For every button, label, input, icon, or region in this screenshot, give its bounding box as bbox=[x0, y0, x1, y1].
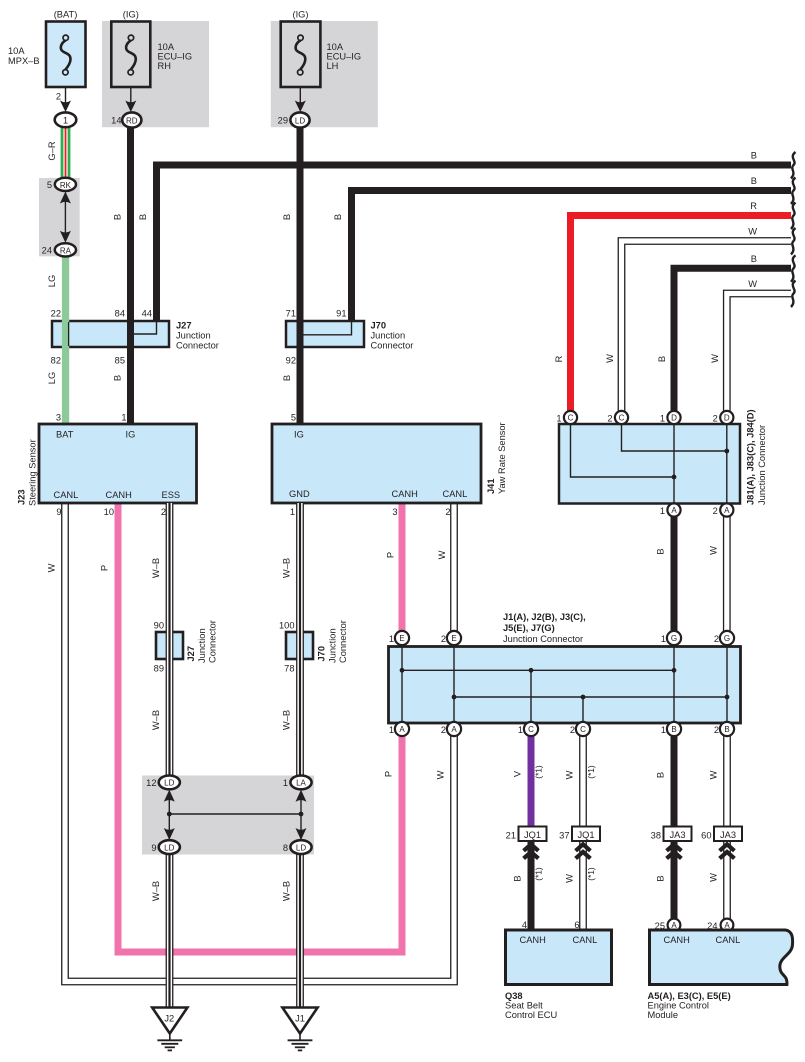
svg-text:W–B: W–B bbox=[151, 710, 161, 730]
J81 pin circle 2D bbox=[720, 411, 733, 424]
continuation squiggle B3 bbox=[791, 255, 796, 281]
svg-text:B: B bbox=[656, 772, 666, 778]
svg-text:A: A bbox=[671, 921, 677, 930]
svg-text:JQ1: JQ1 bbox=[524, 830, 541, 840]
junction pin circle 1C bottom bbox=[524, 722, 538, 736]
wire B fuse LD to yaw IG bbox=[297, 120, 304, 424]
connector oval RA bbox=[55, 243, 76, 256]
svg-text:(IG): (IG) bbox=[123, 10, 139, 20]
svg-text:P: P bbox=[386, 552, 396, 558]
J81 pin labels bbox=[556, 414, 717, 517]
svg-text:37: 37 bbox=[559, 831, 569, 841]
svg-text:W: W bbox=[748, 279, 757, 289]
svg-text:2: 2 bbox=[713, 414, 718, 424]
seat belt control ECU Q38 box bbox=[506, 930, 612, 985]
svg-text:2: 2 bbox=[714, 634, 719, 644]
wire V junction 1C to JQ1 bbox=[528, 736, 535, 827]
svg-text:(*1): (*1) bbox=[534, 867, 544, 881]
svg-text:C: C bbox=[528, 725, 534, 734]
svg-text:J1(A), J2(B), J3(C),: J1(A), J2(B), J3(C), bbox=[503, 612, 586, 622]
svg-text:A5(A), E3(C), E5(E): A5(A), E3(C), E5(E) bbox=[648, 991, 731, 1001]
svg-text:Junction: Junction bbox=[197, 628, 207, 663]
svg-text:Connector: Connector bbox=[208, 620, 218, 663]
svg-text:90: 90 bbox=[154, 621, 164, 631]
wire W junction 2B to JA3 bbox=[723, 736, 731, 827]
svg-text:ECU–IG: ECU–IG bbox=[158, 52, 193, 62]
svg-text:RK: RK bbox=[60, 181, 72, 190]
fuse 2 labels bbox=[111, 10, 192, 126]
svg-text:10: 10 bbox=[104, 507, 114, 517]
J81 pin circle 1C bbox=[564, 411, 577, 424]
connector box JA3 (38) bbox=[664, 827, 692, 842]
svg-text:Junction: Junction bbox=[371, 331, 406, 341]
svg-text:1: 1 bbox=[661, 725, 666, 735]
svg-text:4: 4 bbox=[522, 920, 527, 930]
svg-text:2: 2 bbox=[56, 92, 61, 102]
wire B JA3 to ECM CANH bbox=[671, 841, 678, 925]
svg-text:1: 1 bbox=[556, 414, 561, 424]
svg-text:89: 89 bbox=[154, 664, 164, 674]
wire W CAN-L loop (steering CANL to junction 2A) bbox=[65, 503, 454, 982]
junction pin circle 1B bottom bbox=[667, 722, 681, 736]
svg-text:W: W bbox=[565, 874, 575, 883]
svg-text:MPX–B: MPX–B bbox=[8, 56, 40, 66]
connector oval 1 LA bbox=[290, 776, 311, 790]
svg-text:W: W bbox=[709, 770, 719, 779]
arrow up into RK bbox=[60, 192, 71, 204]
svg-text:B: B bbox=[113, 214, 123, 220]
svg-text:1: 1 bbox=[389, 725, 394, 735]
fuse 10A ECU-IG LH box bbox=[281, 22, 321, 88]
svg-text:100: 100 bbox=[279, 621, 295, 631]
svg-text:71: 71 bbox=[286, 309, 296, 319]
svg-text:1: 1 bbox=[63, 116, 68, 126]
wire B horizontal to J81 1D bbox=[674, 268, 791, 417]
svg-text:8: 8 bbox=[283, 843, 288, 853]
svg-text:B: B bbox=[671, 725, 676, 734]
wire B horizontal 2 to J70 pin 91 bbox=[352, 191, 792, 322]
svg-text:24: 24 bbox=[42, 246, 52, 256]
svg-text:2: 2 bbox=[607, 414, 612, 424]
junction pin circle 1G bbox=[667, 631, 681, 645]
svg-text:W–B: W–B bbox=[282, 881, 292, 901]
svg-text:IG: IG bbox=[126, 430, 136, 440]
connector oval RK bbox=[55, 178, 76, 191]
junction pin circle 2A bottom bbox=[447, 722, 461, 736]
chevron arrows below JQ1 21 (B) bbox=[524, 844, 539, 851]
connector box JQ1 (21) bbox=[519, 827, 547, 842]
arrow down into RA bbox=[60, 231, 71, 243]
svg-text:BAT: BAT bbox=[56, 430, 74, 440]
svg-text:JA3: JA3 bbox=[669, 830, 685, 840]
wire B JQ1 to Q38 CANH bbox=[528, 841, 535, 930]
svg-text:A: A bbox=[451, 725, 457, 734]
svg-text:W: W bbox=[47, 563, 57, 572]
svg-text:B: B bbox=[138, 214, 148, 220]
crossover line LD block bbox=[169, 813, 301, 815]
junction connector J81 box bbox=[559, 424, 740, 504]
wire W-B yaw GND to 1LA bbox=[296, 503, 304, 779]
svg-text:Junction: Junction bbox=[328, 628, 338, 663]
svg-text:GND: GND bbox=[289, 489, 310, 499]
wire W JA3 to ECM CANL bbox=[723, 841, 731, 925]
svg-text:J1: J1 bbox=[295, 1014, 305, 1024]
svg-text:(IG): (IG) bbox=[292, 10, 308, 20]
connector oval LD bbox=[290, 112, 309, 127]
ECM pin circle 25A bbox=[668, 919, 681, 932]
svg-text:Steering Sensor: Steering Sensor bbox=[28, 439, 38, 506]
svg-text:1: 1 bbox=[661, 634, 666, 644]
connector box JQ1 (37) bbox=[572, 827, 600, 842]
svg-text:IG: IG bbox=[294, 430, 304, 440]
svg-text:W: W bbox=[709, 873, 719, 882]
svg-text:R: R bbox=[750, 201, 757, 211]
wire B horizontal 1 to J27 pin 44 bbox=[157, 165, 792, 321]
arrow up into 12LD bbox=[164, 790, 175, 802]
svg-text:J70: J70 bbox=[317, 646, 327, 662]
svg-text:9: 9 bbox=[151, 843, 156, 853]
svg-text:RA: RA bbox=[60, 247, 72, 256]
svg-text:B: B bbox=[724, 725, 729, 734]
svg-text:G: G bbox=[671, 634, 677, 643]
svg-text:CANL: CANL bbox=[443, 489, 468, 499]
svg-text:(*1): (*1) bbox=[586, 867, 596, 881]
svg-text:ESS: ESS bbox=[162, 490, 181, 500]
wire W-B steering ESS to 12LD bbox=[166, 503, 174, 779]
wire W horizontal to J81 2C bbox=[622, 241, 792, 418]
svg-text:CANL: CANL bbox=[54, 490, 79, 500]
svg-text:6: 6 bbox=[574, 920, 579, 930]
svg-text:Engine Control: Engine Control bbox=[648, 1001, 710, 1011]
svg-text:2: 2 bbox=[441, 634, 446, 644]
svg-text:C: C bbox=[568, 414, 574, 423]
fuse 1 labels bbox=[8, 10, 77, 126]
svg-text:85: 85 bbox=[115, 356, 125, 366]
continuation squiggle W2 bbox=[791, 281, 796, 308]
svg-text:Control ECU: Control ECU bbox=[505, 1010, 557, 1020]
svg-text:A: A bbox=[399, 725, 405, 734]
svg-text:V: V bbox=[513, 770, 523, 777]
arrow down into 8LD bbox=[296, 828, 307, 840]
junction pin circle 2C bottom bbox=[576, 722, 590, 736]
small junction connector J70 square bbox=[286, 632, 313, 659]
gray background connector RK/RA bbox=[39, 178, 80, 256]
svg-text:J2: J2 bbox=[164, 1014, 174, 1024]
wire P yaw CANH to junction 1E bbox=[399, 503, 406, 638]
connector oval 9 LD bbox=[159, 840, 180, 854]
svg-text:1: 1 bbox=[518, 725, 523, 735]
wire W junction 2C to JQ1 bbox=[579, 736, 587, 827]
yaw rate sensor J41 box bbox=[272, 424, 481, 503]
svg-text:B: B bbox=[513, 875, 523, 881]
svg-text:10A: 10A bbox=[8, 46, 25, 56]
wire W J81 2A to junction 2G bbox=[723, 510, 731, 638]
svg-text:B: B bbox=[656, 875, 666, 881]
svg-text:J70: J70 bbox=[371, 321, 387, 331]
svg-text:W: W bbox=[437, 550, 447, 559]
wire W horizontal to J81 2D bbox=[727, 294, 791, 418]
svg-text:B: B bbox=[751, 176, 757, 186]
svg-text:P: P bbox=[384, 771, 394, 777]
chevron arrows below JQ1 37 (W) bbox=[576, 844, 591, 851]
connector box JA3 (60) bbox=[714, 827, 742, 842]
right edge wire labels bbox=[748, 151, 757, 290]
svg-text:Q38: Q38 bbox=[505, 991, 523, 1001]
steering sensor J23 box bbox=[39, 424, 197, 503]
svg-text:3: 3 bbox=[392, 507, 397, 517]
J81 pin circle 1D bbox=[667, 411, 680, 424]
arrow into connector 1 bbox=[60, 101, 71, 113]
svg-text:LG: LG bbox=[47, 372, 57, 384]
fuse 10A ECU-IG RH box bbox=[111, 22, 150, 88]
JQ1 JA3 labels bbox=[506, 830, 736, 841]
svg-text:CANH: CANH bbox=[392, 489, 418, 499]
junction pin circle 1E bbox=[395, 631, 409, 645]
svg-text:W: W bbox=[605, 354, 615, 363]
svg-text:29: 29 bbox=[278, 116, 288, 126]
J70 junction labels bbox=[286, 309, 414, 366]
svg-text:22: 22 bbox=[51, 309, 61, 319]
big junction pin labels bbox=[389, 634, 719, 735]
svg-text:P: P bbox=[100, 565, 110, 571]
wire P CAN-H loop (steering CANH to junction 1A) bbox=[118, 503, 402, 952]
svg-text:LD: LD bbox=[295, 117, 305, 126]
svg-text:W–B: W–B bbox=[151, 881, 161, 901]
wire G-R fuse MPX-B to RK bbox=[61, 127, 71, 178]
arrow up into 1LA bbox=[296, 790, 307, 802]
LD block labels bbox=[146, 778, 306, 853]
svg-text:B: B bbox=[282, 375, 292, 381]
wire W yaw CANL to junction 2E bbox=[450, 503, 458, 638]
small J27 square labels bbox=[154, 621, 164, 674]
svg-text:B: B bbox=[657, 356, 667, 362]
arrow down into 9LD bbox=[164, 828, 175, 840]
svg-text:J5(E), J7(G): J5(E), J7(G) bbox=[503, 623, 555, 633]
svg-text:RD: RD bbox=[126, 117, 138, 126]
svg-text:1: 1 bbox=[290, 507, 295, 517]
svg-text:LH: LH bbox=[327, 61, 339, 71]
svg-text:92: 92 bbox=[286, 356, 296, 366]
svg-text:2: 2 bbox=[161, 507, 166, 517]
svg-text:(*1): (*1) bbox=[534, 765, 544, 779]
connector oval RD bbox=[122, 112, 141, 127]
svg-text:G–R: G–R bbox=[47, 141, 57, 160]
connector oval 1 bbox=[55, 112, 77, 127]
svg-text:Connector: Connector bbox=[338, 620, 348, 663]
svg-text:2: 2 bbox=[445, 507, 450, 517]
svg-text:CANL: CANL bbox=[716, 935, 741, 945]
svg-text:W–B: W–B bbox=[282, 558, 292, 578]
svg-text:78: 78 bbox=[284, 664, 294, 674]
svg-text:12: 12 bbox=[146, 778, 156, 788]
svg-text:2: 2 bbox=[713, 506, 718, 516]
arrow into connector RD bbox=[125, 101, 136, 113]
svg-text:B: B bbox=[656, 548, 666, 554]
small junction connector J27 square bbox=[156, 632, 183, 659]
ground J2 bbox=[152, 1008, 187, 1034]
svg-text:10A: 10A bbox=[327, 42, 344, 52]
junction connector J27 box bbox=[52, 321, 169, 347]
svg-text:Junction Connector: Junction Connector bbox=[503, 634, 583, 644]
svg-text:C: C bbox=[619, 414, 625, 423]
J27 junction labels bbox=[51, 309, 219, 366]
svg-text:2: 2 bbox=[570, 725, 575, 735]
svg-text:CANH: CANH bbox=[106, 490, 132, 500]
svg-text:W: W bbox=[748, 227, 757, 237]
svg-text:ECU–IG: ECU–IG bbox=[327, 52, 362, 62]
svg-text:91: 91 bbox=[336, 309, 346, 319]
engine control module box bbox=[650, 930, 793, 985]
fuse 10A MPX-B box bbox=[46, 22, 86, 88]
svg-text:G: G bbox=[724, 634, 730, 643]
svg-text:E: E bbox=[399, 634, 404, 643]
svg-text:LG: LG bbox=[47, 275, 57, 287]
svg-text:1: 1 bbox=[389, 634, 394, 644]
svg-text:Connector: Connector bbox=[371, 341, 414, 351]
continuation squiggle B1 bbox=[791, 152, 796, 179]
yaw rate sensor labels bbox=[289, 413, 467, 518]
junction pin circle 2B bottom bbox=[720, 722, 734, 736]
svg-text:LD: LD bbox=[164, 843, 174, 852]
svg-text:A: A bbox=[671, 506, 677, 515]
svg-text:LD: LD bbox=[164, 779, 174, 788]
svg-text:5: 5 bbox=[47, 180, 52, 190]
svg-text:84: 84 bbox=[115, 309, 125, 319]
svg-text:B: B bbox=[751, 254, 757, 264]
svg-text:9: 9 bbox=[56, 507, 61, 517]
svg-text:24: 24 bbox=[707, 921, 717, 931]
svg-text:1: 1 bbox=[660, 414, 665, 424]
fuse 3 labels bbox=[278, 10, 361, 126]
svg-text:(BAT): (BAT) bbox=[54, 10, 78, 20]
steering sensor labels bbox=[54, 413, 181, 518]
continuation squiggle R bbox=[791, 203, 796, 230]
continuation squiggle W1 bbox=[791, 228, 796, 255]
wire B fuse RD to steering IG bbox=[127, 120, 134, 424]
continuation squiggle B2 bbox=[791, 178, 796, 205]
svg-text:B: B bbox=[333, 214, 343, 220]
svg-text:RH: RH bbox=[158, 61, 171, 71]
RK RA labels bbox=[42, 180, 72, 256]
svg-text:1: 1 bbox=[121, 413, 126, 423]
ECM pin labels bbox=[655, 921, 741, 945]
ECM pin circle 24A bbox=[721, 919, 734, 932]
wire B J81 1A to junction 1G bbox=[671, 510, 678, 638]
svg-text:W–B: W–B bbox=[282, 710, 292, 730]
svg-text:E: E bbox=[451, 634, 456, 643]
gray background fuse ECU-IG LH bbox=[271, 21, 378, 127]
svg-text:LD: LD bbox=[296, 843, 306, 852]
svg-text:B: B bbox=[751, 151, 757, 161]
svg-text:J27: J27 bbox=[176, 321, 192, 331]
gray background fuse ECU-IG RH bbox=[102, 21, 209, 127]
ground J1 bbox=[282, 1008, 317, 1034]
svg-text:B: B bbox=[113, 375, 123, 381]
svg-text:3: 3 bbox=[56, 413, 61, 423]
svg-text:Yaw Rate Sensor: Yaw Rate Sensor bbox=[497, 422, 507, 494]
wire B junction 1B to JA3 bbox=[671, 736, 678, 827]
J81 pin circle 2C bbox=[615, 411, 628, 424]
svg-text:J41: J41 bbox=[486, 478, 496, 494]
junction pin circle 2G bbox=[720, 631, 734, 645]
small J70 square labels bbox=[279, 621, 295, 674]
chevron arrows below JA3 38 (B) bbox=[667, 844, 682, 851]
svg-text:Seat Belt: Seat Belt bbox=[505, 1001, 543, 1011]
svg-text:25: 25 bbox=[655, 921, 665, 931]
svg-text:JQ1: JQ1 bbox=[577, 830, 594, 840]
svg-text:A: A bbox=[724, 921, 730, 930]
junction connector J70 box bbox=[286, 321, 364, 347]
svg-text:W: W bbox=[709, 546, 719, 555]
svg-text:R: R bbox=[554, 355, 564, 362]
svg-text:W: W bbox=[565, 770, 575, 779]
svg-text:W: W bbox=[436, 770, 446, 779]
junction pin circle 2E bbox=[447, 631, 461, 645]
svg-text:14: 14 bbox=[111, 116, 121, 126]
svg-text:JA3: JA3 bbox=[720, 830, 736, 840]
junction pin circle 1A bottom bbox=[395, 722, 409, 736]
svg-text:B: B bbox=[282, 214, 292, 220]
svg-text:1: 1 bbox=[660, 506, 665, 516]
svg-text:Junction: Junction bbox=[176, 331, 211, 341]
svg-text:D: D bbox=[724, 414, 730, 423]
svg-text:C: C bbox=[580, 725, 586, 734]
svg-text:W–B: W–B bbox=[151, 558, 161, 578]
wire LG steering BAT bbox=[62, 256, 69, 424]
svg-text:Connector: Connector bbox=[176, 341, 219, 351]
svg-text:CANL: CANL bbox=[573, 935, 598, 945]
svg-text:CANH: CANH bbox=[520, 935, 546, 945]
wire W JQ1 to Q38 CANL bbox=[579, 841, 587, 930]
svg-text:J27: J27 bbox=[186, 646, 196, 662]
svg-text:CANH: CANH bbox=[664, 935, 690, 945]
svg-text:82: 82 bbox=[51, 356, 61, 366]
J81 pin circle 1A bbox=[667, 503, 680, 516]
svg-text:J23: J23 bbox=[17, 489, 27, 505]
svg-text:1: 1 bbox=[283, 778, 288, 788]
gray background connector LD/LA block bbox=[142, 776, 314, 855]
svg-text:W: W bbox=[710, 354, 720, 363]
svg-text:60: 60 bbox=[701, 831, 711, 841]
chevron arrows below JA3 60 (W) bbox=[720, 844, 735, 851]
big junction connector J1/J2/J3/J5/J7 box bbox=[389, 647, 741, 724]
connector oval 8 LD bbox=[290, 840, 311, 854]
svg-text:Junction Connector: Junction Connector bbox=[757, 425, 767, 505]
wire W-B 9LD to ground J2 bbox=[166, 850, 174, 1008]
svg-text:21: 21 bbox=[506, 831, 516, 841]
svg-text:J81(A), J83(C), J84(D): J81(A), J83(C), J84(D) bbox=[746, 409, 756, 505]
svg-text:Module: Module bbox=[648, 1010, 679, 1020]
svg-text:LA: LA bbox=[296, 779, 306, 788]
J81 pin circle 2A bbox=[720, 503, 733, 516]
wire R horizontal to J81 1C bbox=[571, 216, 792, 418]
wire W-B 8LD to ground J1 bbox=[296, 850, 304, 1008]
Q38 pin labels bbox=[520, 920, 598, 945]
arrow into connector LD bbox=[295, 101, 306, 113]
svg-text:5: 5 bbox=[291, 413, 296, 423]
svg-text:2: 2 bbox=[714, 725, 719, 735]
connector oval 12 LD bbox=[159, 776, 180, 790]
svg-text:44: 44 bbox=[142, 309, 152, 319]
svg-text:2: 2 bbox=[441, 725, 446, 735]
svg-text:(*1): (*1) bbox=[586, 765, 596, 779]
svg-text:38: 38 bbox=[651, 831, 661, 841]
svg-text:D: D bbox=[671, 414, 677, 423]
svg-text:A: A bbox=[724, 506, 730, 515]
svg-text:10A: 10A bbox=[158, 42, 175, 52]
